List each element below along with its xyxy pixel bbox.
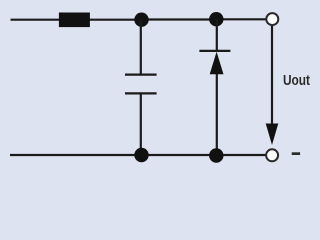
wire top-middle (node A to node B) (141, 18, 216, 20)
wire top-left (input to node A) (11, 19, 142, 21)
diode D1 (cathode bar + upward triangle) (199, 51, 230, 74)
resistor R1 (filled box style) (59, 13, 90, 28)
arrow Uout (down) (266, 124, 279, 146)
node B (top junction dot) (209, 12, 223, 26)
label minus (292, 152, 300, 155)
terminal - (open circle bottom right) (266, 149, 278, 161)
capacitor C1 (125, 75, 157, 94)
wire top-right (node B to + terminal) (216, 18, 266, 20)
node D (bottom junction dot) (209, 148, 223, 162)
wire Uout measurement line (271, 26, 273, 131)
wire capacitor upper stem (140, 20, 142, 74)
wire diode upper stem (216, 19, 218, 51)
svg-text:Uout: Uout (283, 72, 310, 89)
node A (top junction dot) (134, 13, 148, 27)
wire capacitor lower stem (140, 93, 142, 155)
terminal + (open circle top right) (266, 13, 278, 25)
wire diode lower stem (216, 74, 218, 155)
node C (bottom junction dot) (134, 148, 148, 162)
wire bottom (left end to - terminal) (10, 154, 266, 156)
